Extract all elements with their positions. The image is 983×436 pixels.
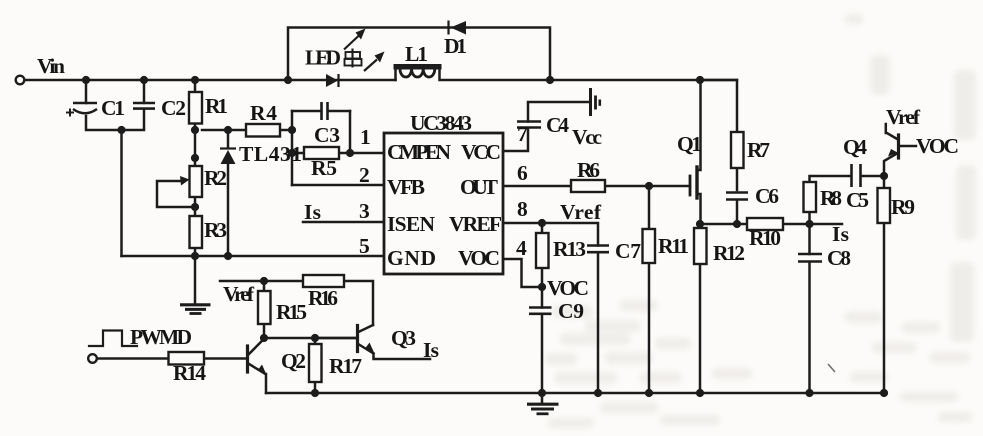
- svg-text:VOC: VOC: [458, 246, 500, 270]
- svg-text:Is: Is: [423, 338, 439, 362]
- svg-text:L1: L1: [405, 42, 428, 66]
- svg-text:R7: R7: [747, 138, 770, 162]
- svg-text:R2: R2: [204, 166, 227, 190]
- svg-text:5: 5: [359, 234, 370, 258]
- svg-text:R1: R1: [205, 94, 228, 118]
- svg-text:C5: C5: [846, 188, 869, 212]
- svg-text:R14: R14: [173, 361, 206, 385]
- svg-text:R12: R12: [713, 241, 745, 265]
- svg-text:R5: R5: [311, 156, 337, 180]
- svg-text:CMPEN: CMPEN: [387, 140, 451, 164]
- svg-text:LED: LED: [305, 46, 341, 70]
- svg-text:Q2: Q2: [281, 349, 306, 373]
- svg-text:ISEN: ISEN: [387, 212, 435, 236]
- svg-text:2: 2: [359, 163, 370, 187]
- svg-text:UC3843: UC3843: [410, 111, 472, 135]
- svg-text:1: 1: [360, 125, 371, 149]
- svg-text:Is: Is: [832, 222, 849, 246]
- svg-text:3: 3: [359, 199, 370, 223]
- svg-text:C2: C2: [161, 96, 186, 120]
- svg-text:VCC: VCC: [461, 140, 501, 164]
- svg-text:TL431: TL431: [239, 142, 302, 166]
- svg-text:Q4: Q4: [843, 135, 867, 159]
- svg-text:R10: R10: [749, 226, 781, 250]
- svg-text:C9: C9: [558, 299, 584, 323]
- svg-text:Vref: Vref: [223, 282, 255, 306]
- svg-text:C4: C4: [546, 113, 569, 137]
- svg-text:C3: C3: [314, 123, 340, 147]
- svg-text:R6: R6: [577, 158, 600, 182]
- svg-text:R17: R17: [329, 354, 362, 378]
- svg-text:Vref: Vref: [886, 105, 921, 129]
- svg-text:Is: Is: [304, 200, 321, 224]
- svg-text:R9: R9: [891, 195, 915, 219]
- svg-text:R15: R15: [276, 300, 307, 324]
- svg-text:VFB: VFB: [387, 175, 425, 199]
- svg-text:Vref: Vref: [560, 200, 602, 224]
- svg-text:Q1: Q1: [677, 132, 702, 156]
- svg-text:Vin: Vin: [37, 54, 65, 78]
- svg-text:VOC: VOC: [916, 134, 959, 158]
- svg-text:4: 4: [516, 236, 527, 260]
- svg-text:C7: C7: [615, 239, 641, 263]
- svg-text:R13: R13: [553, 237, 586, 261]
- svg-text:VREF: VREF: [449, 212, 502, 236]
- svg-text:VOC: VOC: [547, 276, 589, 300]
- svg-text:GND: GND: [387, 246, 436, 270]
- svg-text:D1: D1: [444, 34, 467, 58]
- svg-text:C6: C6: [755, 184, 779, 208]
- svg-text:R11: R11: [658, 234, 689, 258]
- svg-text:7: 7: [517, 122, 528, 146]
- svg-text:6: 6: [517, 161, 528, 185]
- svg-text:Q3: Q3: [391, 326, 416, 350]
- svg-text:Vcc: Vcc: [572, 125, 602, 149]
- svg-text:R3: R3: [204, 218, 227, 242]
- svg-text:PWMD: PWMD: [130, 325, 192, 349]
- svg-text:R8: R8: [820, 186, 842, 210]
- svg-text:R16: R16: [308, 286, 338, 310]
- svg-text:OUT: OUT: [460, 175, 499, 199]
- svg-text:R4: R4: [250, 101, 277, 125]
- svg-text:C8: C8: [827, 246, 851, 270]
- svg-text:8: 8: [517, 197, 528, 221]
- svg-text:C1: C1: [101, 96, 125, 120]
